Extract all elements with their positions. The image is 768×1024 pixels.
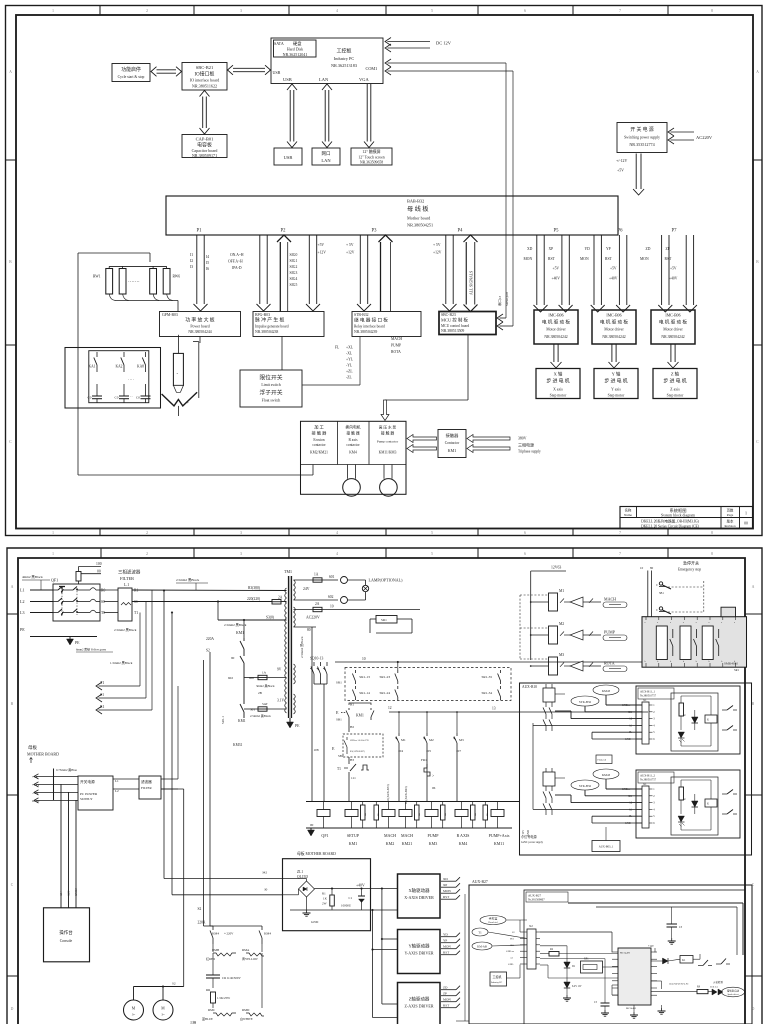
signal labels SIG0-SIG5: [290, 253, 298, 287]
svg-text:TM1: TM1: [284, 569, 292, 574]
svg-text:IMC-B06: IMC-B06: [606, 314, 621, 318]
svg-text:108: 108: [314, 748, 319, 752]
svg-text:b: b: [696, 661, 697, 663]
triphase supply arrows: [467, 435, 541, 454]
svg-text:GsNC power supply: GsNC power supply: [521, 841, 544, 844]
svg-text:b: b: [657, 661, 658, 663]
COM1 serial wires to MCU board: [385, 59, 513, 330]
svg-text:SR1-24: SR1-24: [380, 691, 391, 695]
arrow power supply to mother board: [616, 154, 644, 196]
svg-text:XD: XD: [443, 877, 448, 881]
svg-text:RMD: RMD: [242, 1008, 250, 1012]
svg-text:L2: L2: [20, 599, 24, 604]
svg-text:8: 8: [711, 552, 713, 556]
Z axis driver box: [398, 983, 461, 1024]
svg-text:限位开关: 限位开关: [259, 374, 282, 382]
svg-text:IO interface board: IO interface board: [190, 78, 219, 83]
coil SETUP KM1: [345, 802, 367, 847]
svg-text:S2: S2: [198, 907, 202, 911]
svg-text:M2: M2: [429, 738, 434, 742]
svg-text:串口13: 串口13: [497, 296, 502, 306]
svg-text:SATA: SATA: [274, 41, 284, 46]
wires filter to transformer taps: [110, 586, 287, 665]
svg-text:T0: T0: [101, 611, 105, 615]
mother board BAB-B32: [166, 196, 677, 235]
svg-text:ZP: ZP: [666, 247, 670, 251]
AUX-B27 misc components: [490, 903, 745, 1018]
P2-P3 volt labels: [318, 243, 355, 255]
svg-text:继 电 器 接 口 板: 继 电 器 接 口 板: [354, 317, 388, 324]
svg-text:+40V: +40V: [669, 277, 678, 281]
power board GPM-B03: [160, 312, 241, 337]
svg-text:contactor: contactor: [346, 443, 360, 447]
svg-text:a: a: [696, 622, 697, 624]
svg-text:NR.380511622: NR.380511622: [192, 84, 217, 89]
svg-text:QF1: QF1: [321, 833, 328, 838]
filter for PC power: [56, 686, 183, 799]
svg-text:GND: GND: [625, 738, 631, 741]
svg-text:CR 0.1R/500V: CR 0.1R/500V: [222, 976, 241, 980]
console wires: [59, 784, 78, 907]
svg-text:RMC: RMC: [208, 1008, 215, 1012]
circuit breaker QF1: [51, 578, 100, 622]
relay group KA1-KA8 with C01-C08: [65, 348, 161, 409]
svg-text:Emergency stop: Emergency stop: [678, 568, 701, 572]
svg-text:Hand ctrl: Hand ctrl: [488, 921, 498, 924]
wires into module 1: [533, 694, 642, 739]
coil PUMP KM3: [425, 802, 447, 847]
svg-text:L1: L1: [115, 779, 119, 783]
flash red indicator: [596, 755, 612, 764]
svg-text:RL: RL: [418, 812, 421, 816]
svg-text:≈ 220V: ≈ 220V: [224, 932, 234, 936]
svg-text:Step motor: Step motor: [550, 394, 568, 398]
svg-text:P3: P3: [372, 229, 378, 234]
DC 12V feed arrows: [385, 38, 452, 53]
output contacts module 2: [722, 790, 737, 815]
svg-text:12V63: 12V63: [551, 566, 561, 570]
svg-text:RL: RL: [377, 812, 380, 816]
svg-text:A: A: [752, 585, 755, 589]
svg-text:QF1: QF1: [51, 578, 58, 583]
svg-text:GND: GND: [311, 920, 319, 924]
svg-text:接 触 器: 接 触 器: [312, 430, 328, 437]
svg-text:I4: I4: [206, 255, 209, 259]
coil R AXIS KM4: [455, 802, 477, 847]
svg-text:C0: C0: [115, 396, 119, 400]
power pins to mother board: [32, 769, 78, 804]
svg-text:9V: 9V: [277, 668, 282, 672]
arrow P3 from relay board: [379, 235, 393, 312]
svg-text:C0: C0: [88, 396, 92, 400]
svg-text:手控盒: 手控盒: [489, 916, 498, 921]
GsNC power supply label: [521, 827, 606, 844]
svg-text:2.5mm2 黑Black: 2.5mm2 黑Black: [300, 636, 304, 658]
svg-text:00: 00: [310, 823, 314, 827]
svg-text:I6: I6: [206, 267, 209, 271]
svg-text:00: 00: [744, 522, 748, 526]
svg-text:S2: S2: [206, 649, 210, 653]
svg-text:白WHITE: 白WHITE: [240, 1016, 253, 1021]
svg-text:PUMP+Axis: PUMP+Axis: [489, 833, 510, 838]
signal labels ON OFF IPA: [228, 253, 244, 270]
svg-text:NR.380504239: NR.380504239: [354, 330, 377, 334]
svg-text:YP: YP: [443, 939, 447, 943]
svg-text:a: a: [721, 622, 722, 624]
svg-text:BAB-B32: BAB-B32: [407, 199, 424, 204]
connector X2: [506, 924, 540, 969]
plug connector module 1: [543, 684, 555, 731]
svg-text:X axis: X axis: [553, 388, 563, 392]
svg-text:RL: RL: [364, 812, 367, 816]
AUX-B27 inner board: [524, 890, 745, 1024]
svg-text:工控板: 工控板: [336, 48, 351, 55]
svg-text:NR.353512774: NR.353512774: [629, 142, 654, 147]
svg-text:a: a: [670, 622, 671, 624]
mother board label: [297, 851, 336, 856]
arrow PC VGA to touch screen: [364, 84, 374, 148]
svg-text:RMA: RMA: [242, 948, 250, 952]
arrow IO board to PC: [228, 65, 271, 75]
svg-text:+ZL: +ZL: [346, 370, 353, 374]
svg-text:Switching power supply: Switching power supply: [624, 136, 660, 140]
svg-text:R0: R0: [101, 589, 105, 593]
svg-text:急停开关: 急停开关: [683, 560, 699, 566]
svg-text:NR.380504244: NR.380504244: [188, 330, 211, 334]
AC220V feed arrows: [668, 128, 713, 144]
svg-text:SIG1: SIG1: [290, 259, 298, 263]
AUX-B03_1 box: [592, 841, 620, 852]
svg-text:2: 2: [146, 552, 148, 556]
svg-text:a: a: [657, 622, 658, 624]
svg-text:80: 80: [650, 566, 654, 570]
svg-text:DKELL 20 Series Circuit Diagra: DKELL 20 Series Circuit Diagram (CE): [641, 524, 700, 528]
svg-text:K1: K1: [682, 959, 686, 962]
driver to AUX wires: [456, 871, 470, 1021]
pin labels module 1: [622, 704, 633, 741]
svg-text:NR.380504251: NR.380504251: [407, 223, 433, 228]
svg-text:Spark detect: Spark detect: [727, 994, 738, 996]
svg-text:M1: M1: [559, 589, 564, 593]
svg-text:USB: USB: [284, 155, 293, 160]
svg-text:Name: Name: [624, 513, 633, 517]
svg-text:三相: 三相: [190, 1020, 196, 1024]
svg-text:MCU 控 制 板: MCU 控 制 板: [441, 317, 468, 324]
svg-text:名称: 名称: [625, 508, 632, 513]
svg-text:Step motor: Step motor: [667, 394, 685, 398]
svg-text:601: 601: [329, 575, 335, 579]
svg-text:P5: P5: [554, 229, 560, 234]
motor driver IMC-B06 Z: [651, 310, 695, 344]
svg-text:YD: YD: [585, 247, 591, 251]
svg-text:5: 5: [431, 552, 433, 556]
capacitor board CAP-B01: [182, 135, 227, 159]
svg-text:Limit switch: Limit switch: [261, 383, 280, 387]
svg-text:R1: R1: [100, 705, 105, 709]
svg-text:380V: 380V: [518, 437, 527, 441]
svg-text:NR.380504238: NR.380504238: [255, 330, 278, 334]
svg-text:Triphase supply: Triphase supply: [518, 450, 541, 454]
svg-text:+ 5V: + 5V: [346, 243, 354, 247]
svg-text:Impulse generate board: Impulse generate board: [255, 325, 289, 329]
svg-text:ZD: ZD: [443, 986, 448, 990]
P2 aux wire pair: [306, 235, 320, 311]
svg-text:XP: XP: [549, 247, 554, 251]
svg-text:PL: PL: [629, 731, 632, 734]
svg-text:5: 5: [431, 531, 433, 535]
svg-text:开 关 电 源: 开 关 电 源: [630, 126, 653, 133]
svg-text:S2: S2: [172, 982, 176, 986]
pump motor B2: [153, 1000, 173, 1020]
svg-text:111: 111: [351, 776, 356, 780]
svg-text:NR.362512041: NR.362512041: [283, 52, 308, 57]
AUX-B10 relay module 1: [636, 686, 740, 754]
svg-text:a: a: [734, 622, 735, 624]
svg-text:+YL: +YL: [346, 358, 354, 362]
arrow P2 from impulse board: [277, 235, 291, 312]
svg-text:1.5mm2 黑Black: 1.5mm2 黑Black: [110, 661, 133, 665]
svg-text:Float switch: Float switch: [262, 399, 281, 403]
svg-text:KA2: KA2: [116, 365, 123, 369]
svg-text:Revision: Revision: [724, 524, 736, 528]
svg-text:7: 7: [619, 531, 621, 535]
svg-text:SR1-1: SR1-1: [221, 716, 225, 724]
svg-text:NR.380509171: NR.380509171: [192, 153, 217, 158]
P7 wires to Z motor driver: [640, 235, 697, 312]
svg-text:母 线 板: 母 线 板: [407, 205, 429, 213]
USB connector box: [274, 148, 302, 165]
svg-text:KM4: KM4: [264, 932, 271, 936]
svg-text:USB: USB: [273, 70, 281, 75]
svg-text:AC220V: AC220V: [306, 616, 320, 620]
svg-text:MACH: MACH: [401, 833, 413, 838]
svg-text:12° 触摸屏: 12° 触摸屏: [362, 149, 380, 154]
svg-text:KM43: KM43: [602, 689, 611, 693]
cycle start-stop box: [112, 64, 150, 82]
motor driver IMC-B06 X: [534, 310, 578, 344]
svg-text:黄YELLOW: 黄YELLOW: [242, 956, 258, 961]
svg-text:I3: I3: [190, 265, 193, 269]
svg-text:SB1: SB1: [336, 718, 342, 722]
svg-text:13: 13: [492, 707, 496, 711]
svg-text:高 压 水 泵: 高 压 水 泵: [379, 425, 397, 430]
switch SB2 box: [332, 734, 383, 764]
svg-text:24V: 24V: [303, 587, 310, 591]
svg-text:L.1: L.1: [124, 583, 129, 587]
limit switch float switch box: [240, 370, 302, 407]
protective earth PE: [20, 627, 113, 652]
svg-text:RST: RST: [443, 1004, 449, 1008]
svg-text:KM43: KM43: [602, 773, 611, 777]
svg-text:+40V: +40V: [552, 277, 561, 281]
svg-text:KM1: KM1: [448, 448, 456, 453]
svg-text:Motor driver: Motor driver: [663, 328, 683, 332]
svg-text:AUX-B27: AUX-B27: [472, 880, 488, 884]
svg-text:PUMP: PUMP: [604, 630, 616, 635]
branch arrows T1 S1 R1: [96, 590, 152, 714]
svg-text:R1: R1: [322, 892, 326, 896]
svg-text:Power board: Power board: [190, 325, 209, 329]
svg-text:602: 602: [228, 676, 233, 680]
svg-text:操作台: 操作台: [59, 929, 73, 936]
svg-text:接触器: 接触器: [446, 432, 460, 439]
contactor group box with pump motors: [301, 421, 407, 496]
arrow driver to Z motor: [668, 344, 679, 368]
svg-text:3mm2 黑Black: 3mm2 黑Black: [256, 684, 275, 688]
arrows KM1 to contactor group: [407, 435, 437, 453]
svg-text:2.5mm2 黑Black: 2.5mm2 黑Black: [224, 623, 247, 627]
svg-text:SB2: SB2: [338, 754, 344, 758]
svg-text:7: 7: [619, 552, 621, 556]
svg-text:PC POWER: PC POWER: [80, 792, 98, 796]
mains input L1 L2 L3: [20, 575, 53, 615]
wire pair to relay board left: [357, 235, 371, 311]
svg-text:STB-B32: STB-B32: [354, 313, 369, 317]
wires 342 and 30 to mother board: [163, 590, 283, 895]
svg-text:+12V: +12V: [522, 830, 525, 836]
safety module SMK40M: [642, 607, 747, 672]
svg-text:CAP-B01: CAP-B01: [196, 137, 214, 142]
svg-text:步 进 电 机: 步 进 电 机: [604, 378, 627, 385]
svg-text:+12V: +12V: [346, 251, 355, 255]
svg-text:电 机 驱 动 板: 电 机 驱 动 板: [659, 319, 687, 326]
svg-text:1A: 1A: [314, 573, 319, 577]
coil feed rail: [306, 801, 520, 803]
svg-text:DC 12V: DC 12V: [436, 41, 452, 46]
svg-text:M1: M1: [401, 738, 406, 742]
svg-text:GND.sv: GND.sv: [622, 704, 631, 707]
svg-text:4: 4: [336, 531, 338, 535]
coil MACH KM21: [399, 802, 421, 847]
svg-text:SIG4: SIG4: [290, 277, 298, 281]
svg-text:1: 1: [52, 552, 54, 556]
svg-text:RST: RST: [548, 257, 556, 261]
svg-text:GPM-B03: GPM-B03: [162, 313, 178, 317]
svg-text:2A: 2A: [315, 602, 320, 606]
svg-text:2: 2: [146, 9, 148, 13]
svg-text:Mother board: Mother board: [407, 216, 431, 221]
svg-text:+/-12V: +/-12V: [616, 159, 627, 163]
svg-text:··: ··: [130, 394, 133, 399]
svg-text:页数: 页数: [727, 508, 734, 513]
AUX-B10 block outline: [520, 683, 752, 855]
svg-text:YP: YP: [606, 247, 611, 251]
svg-text:2.5mm2 黑Black: 2.5mm2 黑Black: [176, 578, 199, 582]
svg-text:+5V: +5V: [610, 267, 617, 271]
arrow driver to X motor: [551, 344, 562, 368]
svg-text:Z axis: Z axis: [670, 388, 680, 392]
svg-text:2A: 2A: [278, 596, 283, 600]
svg-text:PUMP: PUMP: [391, 344, 401, 348]
svg-text:+12V: +12V: [433, 251, 442, 255]
inter-module wire: [532, 723, 534, 809]
svg-text:增氧泵启动: 增氧泵启动: [727, 989, 740, 993]
AUX-B27 input tags: [472, 916, 506, 951]
svg-text:RL: RL: [444, 812, 447, 816]
svg-text:KM1: KM1: [349, 841, 357, 846]
svg-text:K: K: [707, 803, 709, 806]
svg-text:+ 5V: + 5V: [433, 243, 441, 247]
PC power supply box: [78, 776, 139, 810]
svg-text:KM4: KM4: [459, 841, 467, 846]
svg-text:contactor: contactor: [312, 443, 326, 447]
svg-text:Industry PC: Industry PC: [491, 981, 503, 984]
step motor X: [536, 369, 580, 399]
svg-text:2: 2: [146, 531, 148, 535]
svg-text:SIG2: SIG2: [290, 265, 298, 269]
wire pair to MCU board left: [443, 235, 457, 311]
svg-text:FR1: FR1: [421, 758, 427, 762]
arrow driver to Y motor: [609, 344, 620, 368]
svg-text:KM21: KM21: [402, 841, 413, 846]
svg-text:FILTER: FILTER: [141, 786, 153, 790]
svg-text:10: 10: [362, 657, 366, 661]
svg-text:步 进 电 机: 步 进 电 机: [663, 378, 686, 385]
plug connector module 2: [543, 768, 555, 815]
svg-text:3: 3: [240, 9, 242, 13]
svg-text:+5V: +5V: [617, 169, 624, 173]
motor driver IMC-B06 Y: [592, 310, 636, 344]
svg-text:R axis: R axis: [348, 438, 358, 442]
svg-text:600: 600: [249, 676, 254, 680]
svg-text:b: b: [645, 661, 646, 663]
step motor Y: [594, 369, 638, 399]
svg-text:5AT: 5AT: [262, 702, 268, 706]
cable label 2.5mm2: [176, 578, 208, 590]
svg-text:IPA-D: IPA-D: [232, 266, 242, 270]
svg-text:SR1-35: SR1-35: [482, 675, 493, 679]
svg-text:LAMP(OPTIONAL): LAMP(OPTIONAL): [369, 578, 404, 583]
svg-text:+5V: +5V: [318, 243, 325, 247]
svg-text:RW1: RW1: [93, 275, 101, 279]
svg-text:M3: M3: [559, 653, 564, 657]
AC220V control branch with SR1: [294, 602, 421, 633]
svg-text:1: 1: [745, 511, 747, 516]
svg-text:NR.362513183: NR.362513183: [331, 63, 357, 68]
svg-text:2W: 2W: [322, 902, 327, 906]
mother board power section ZL1 C1 R1: [262, 859, 398, 931]
svg-text:3: 3: [240, 552, 242, 556]
svg-text:X1: X1: [643, 782, 647, 786]
svg-text:90: 90: [231, 656, 235, 660]
svg-text:I1: I1: [190, 253, 193, 257]
svg-text:Erosion: Erosion: [313, 438, 324, 442]
svg-text:SR1: SR1: [381, 618, 387, 622]
svg-text:K: K: [707, 719, 709, 722]
wire MCU to contactor group: [381, 335, 468, 421]
svg-text:6: 6: [524, 9, 526, 13]
svg-text:1: 1: [52, 531, 54, 535]
svg-text:SIG3: SIG3: [290, 271, 298, 275]
svg-text:USB: USB: [283, 77, 292, 82]
svg-text:红RED: 红RED: [206, 956, 216, 961]
svg-text:KA1: KA1: [89, 365, 96, 369]
svg-text:Contactor: Contactor: [445, 441, 460, 445]
svg-text:XP: XP: [443, 883, 447, 887]
coil QF1: [317, 802, 330, 839]
svg-text:100: 100: [96, 562, 102, 566]
switching power supply box: [617, 123, 667, 153]
svg-text:版本: 版本: [727, 519, 734, 524]
relay contact M3: [453, 711, 464, 801]
svg-text:ON.A~H: ON.A~H: [230, 253, 244, 257]
svg-text:母板: 母板: [28, 744, 37, 751]
svg-text:KM4: KM4: [212, 932, 219, 936]
sheet2 border frame: [7, 548, 762, 1024]
svg-text:Nr.381509807: Nr.381509807: [528, 898, 545, 902]
svg-text:三相电源: 三相电源: [518, 442, 534, 448]
svg-text:ROTA: ROTA: [604, 661, 615, 666]
